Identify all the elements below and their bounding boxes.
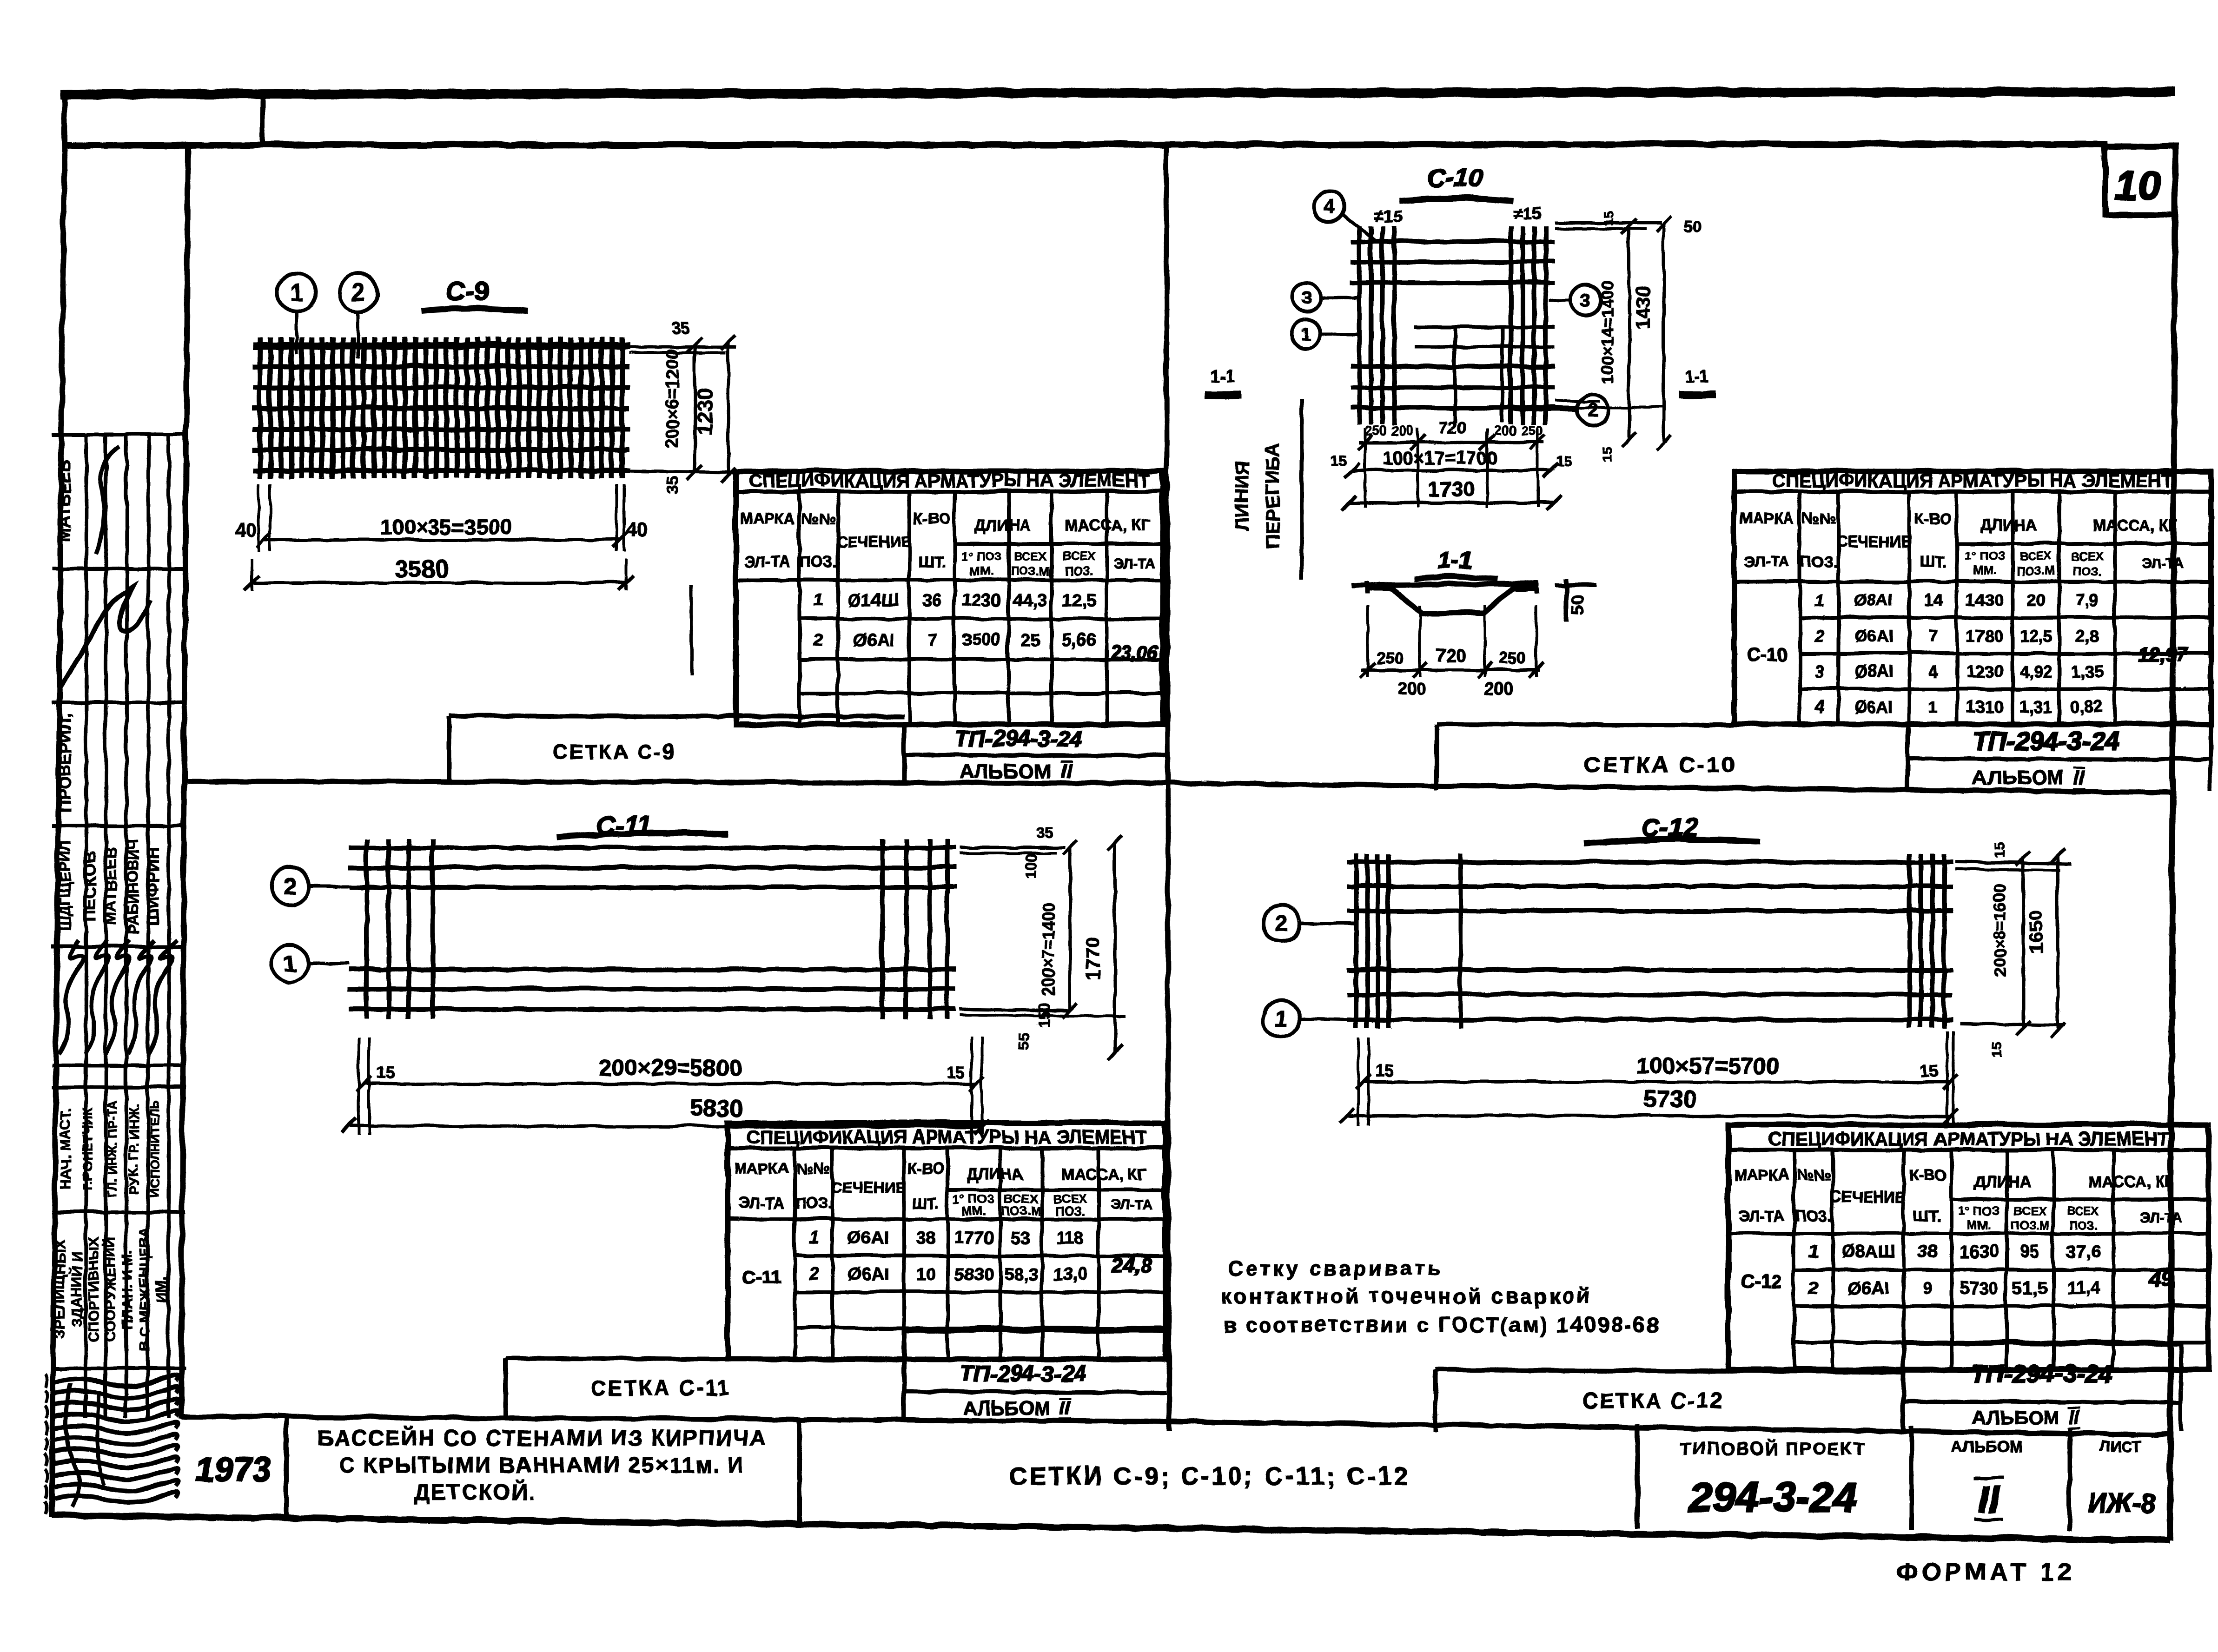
- mesh C-10 grid: [1350, 225, 1554, 424]
- mesh C-12 grid: [1346, 853, 1952, 1027]
- callout circle 1 (C-12): [1262, 999, 1355, 1037]
- svg-text:С-9: С-9: [444, 275, 488, 305]
- svg-text:200×6=1200: 200×6=1200: [662, 348, 682, 447]
- svg-text:9: 9: [1922, 1278, 1932, 1297]
- svg-text:МАТВЕЕВ: МАТВЕЕВ: [102, 847, 119, 924]
- svg-text:1230: 1230: [1965, 661, 2002, 681]
- C-11 dimension 5830: [348, 1125, 981, 1126]
- svg-text:Ø6АI: Ø6АI: [847, 1264, 888, 1283]
- svg-text:Ø8АI: Ø8АI: [1854, 590, 1893, 609]
- svg-text:55: 55: [1014, 1031, 1032, 1049]
- svg-text:ЭЛ-ТА: ЭЛ-ТА: [738, 1194, 783, 1211]
- callout circle 1 (C-9): [277, 273, 315, 311]
- C-11 vertical dimension 1770: [1113, 842, 1116, 1051]
- svg-text:ВСЕХ: ВСЕХ: [2019, 548, 2052, 562]
- svg-text:10: 10: [915, 1264, 934, 1283]
- svg-text:ТП-294-3-24: ТП-294-3-24: [960, 1361, 1086, 1386]
- svg-text:4: 4: [1813, 697, 1823, 716]
- svg-text:СЕТКА С-9: СЕТКА С-9: [552, 740, 675, 762]
- section mark 1-1 left: [1204, 390, 1240, 398]
- svg-text:1-1: 1-1: [1210, 366, 1234, 385]
- svg-text:С-12: С-12: [1741, 1270, 1781, 1291]
- svg-text:11,4: 11,4: [2066, 1278, 2099, 1297]
- svg-text:ПОЗ.: ПОЗ.: [795, 1194, 831, 1211]
- svg-text:II: II: [2073, 766, 2085, 788]
- svg-text:5730: 5730: [1959, 1278, 1998, 1297]
- svg-text:ИМ.: ИМ.: [152, 1275, 169, 1302]
- svg-text:СЕЧЕНИЕ: СЕЧЕНИЕ: [830, 1178, 905, 1195]
- svg-text:1430: 1430: [1965, 590, 2002, 609]
- svg-text:1,35: 1,35: [2070, 661, 2102, 681]
- svg-text:1770: 1770: [1081, 936, 1103, 979]
- svg-text:1: 1: [1274, 1005, 1287, 1031]
- svg-text:К-ВО: К-ВО: [907, 1159, 944, 1176]
- svg-text:СПЕЦИФИКАЦИЯ АРМАТУРЫ НА ЭЛ: СПЕЦИФИКАЦИЯ АРМАТУРЫ НА ЭЛЕМЕНТ: [1771, 470, 2172, 490]
- svg-text:2: 2: [1813, 626, 1823, 645]
- svg-text:II: II: [2068, 1406, 2079, 1427]
- project cell TP-294-3-24 (C-11): [901, 1329, 906, 1419]
- title bar C-11: [504, 1357, 903, 1359]
- svg-text:СПЕЦИФИКАЦИЯ АРМАТУРЫ НА ЭЛ: СПЕЦИФИКАЦИЯ АРМАТУРЫ НА ЭЛЕМЕНТ: [748, 470, 1149, 490]
- svg-text:ПОЗ.: ПОЗ.: [800, 552, 836, 569]
- bottom edge of C-12 title bar: [1165, 1421, 2170, 1434]
- svg-text:4: 4: [1323, 195, 1334, 217]
- stamp band big signature: [59, 586, 151, 688]
- svg-text:СПЕЦИФИКАЦИЯ АРМАТУРЫ НА ЭЛ: СПЕЦИФИКАЦИЯ АРМАТУРЫ НА ЭЛЕМЕНТ: [1768, 1128, 2168, 1149]
- svg-text:К-ВО: К-ВО: [913, 509, 950, 526]
- svg-text:14: 14: [1923, 590, 1941, 609]
- svg-text:ПЕСКОВ: ПЕСКОВ: [80, 850, 99, 921]
- C-12 vertical dimension 200x8=1600: [2021, 858, 2024, 1027]
- svg-text:2: 2: [283, 872, 296, 899]
- project cell TP-294-3-24 (C-9): [901, 724, 906, 782]
- svg-text:0,82: 0,82: [2070, 697, 2102, 716]
- svg-text:38: 38: [1917, 1242, 1936, 1261]
- svg-text:37,6: 37,6: [2066, 1242, 2100, 1261]
- callout circle 2 (C-9): [338, 273, 377, 311]
- project cell TP-294-3-24 (C-12): [1900, 1341, 1905, 1432]
- svg-text:53: 53: [1011, 1228, 1030, 1247]
- svg-text:3580: 3580: [394, 555, 448, 582]
- svg-text:АЛЬБОМ: АЛЬБОМ: [958, 759, 1050, 782]
- svg-text:5830: 5830: [953, 1264, 993, 1283]
- svg-text:5,66: 5,66: [1061, 630, 1096, 649]
- horizontal divider right half: [1165, 782, 2170, 792]
- svg-text:15: 15: [1330, 453, 1345, 468]
- svg-text:15: 15: [1555, 453, 1570, 468]
- svg-text:ЗРЕЛИЩНЫХ: ЗРЕЛИЩНЫХ: [51, 1240, 67, 1337]
- binding connector line: [259, 95, 265, 145]
- svg-text:ЗДАНИЙ И: ЗДАНИЙ И: [67, 1251, 84, 1326]
- svg-text:Г.РОНЕТЧИК: Г.РОНЕТЧИК: [79, 1106, 94, 1190]
- svg-text:Ø6АI: Ø6АI: [847, 1228, 888, 1247]
- svg-text:ДЛИНА: ДЛИНА: [966, 1165, 1023, 1183]
- svg-text:2: 2: [351, 278, 364, 305]
- svg-text:С-10: С-10: [1746, 644, 1787, 664]
- svg-text:С-10: С-10: [1426, 162, 1482, 192]
- svg-text:40: 40: [234, 518, 256, 540]
- svg-text:АЛЬБОМ: АЛЬБОМ: [1971, 1406, 2059, 1427]
- section 1-1 thickness mark: [1563, 578, 1568, 621]
- svg-text:МАССА, КГ: МАССА, КГ: [2088, 1172, 2173, 1190]
- svg-text:ПОЗ.М: ПОЗ.М: [2015, 563, 2054, 577]
- svg-text:контактной точечной сваркой: контактной точечной сваркой: [1220, 1283, 1592, 1307]
- svg-text:15: 15: [946, 1062, 965, 1081]
- svg-text:ТП-294-3-24: ТП-294-3-24: [1972, 726, 2119, 755]
- svg-text:ММ.: ММ.: [1972, 563, 1996, 577]
- svg-text:49: 49: [2148, 1266, 2172, 1290]
- C-12 dimension 5730: [1346, 1115, 1949, 1116]
- svg-text:ДЛИНА: ДЛИНА: [1973, 1172, 2030, 1190]
- svg-text:СЕЧЕНИЕ: СЕЧЕНИЕ: [1836, 532, 1911, 549]
- svg-text:ПЕРЕГИБА: ПЕРЕГИБА: [1261, 442, 1283, 548]
- spec table C-12: [1728, 1124, 2208, 1369]
- svg-text:МАССА, КГ: МАССА, КГ: [2092, 516, 2177, 534]
- svg-text:ВСЕХ: ВСЕХ: [2013, 1203, 2046, 1217]
- svg-text:ЭЛ-ТА: ЭЛ-ТА: [744, 552, 789, 569]
- stamp column divider: [180, 145, 187, 1418]
- left outer border: [51, 91, 64, 1516]
- C-12 right dimension extensions: [1954, 861, 2070, 863]
- C-9 right dimension extensions: [629, 345, 736, 348]
- svg-text:II: II: [1060, 759, 1072, 782]
- svg-text:Ø14Ш: Ø14Ш: [847, 590, 899, 609]
- svg-text:250: 250: [1364, 423, 1386, 438]
- svg-text:10: 10: [2114, 162, 2160, 208]
- svg-text:15: 15: [1988, 1041, 2004, 1056]
- svg-text:СЕЧЕНИЕ: СЕЧЕНИЕ: [1830, 1188, 1905, 1205]
- section 1-1 bent mesh profile: [1351, 583, 1539, 584]
- svg-text:38: 38: [915, 1228, 934, 1247]
- svg-text:ИЖ-8: ИЖ-8: [2086, 1487, 2155, 1518]
- svg-text:МАССА, КГ: МАССА, КГ: [1064, 516, 1149, 534]
- svg-text:Сетку сваривать: Сетку сваривать: [1227, 1256, 1442, 1279]
- svg-text:25: 25: [1020, 630, 1039, 649]
- svg-text:250: 250: [1520, 423, 1543, 438]
- svg-text:2: 2: [813, 630, 823, 649]
- svg-text:12,5: 12,5: [2019, 626, 2051, 645]
- svg-text:1973: 1973: [194, 1449, 271, 1488]
- svg-text:1-1: 1-1: [1684, 366, 1708, 385]
- svg-text:II: II: [1059, 1396, 1071, 1418]
- C-10 top right extension lines: [1554, 221, 1661, 224]
- title bar C-9: [449, 715, 903, 716]
- C-9 vertical dimension 1230: [726, 342, 729, 474]
- svg-text:СЕТКИ С-9; С-10; С-11; С-: СЕТКИ С-9; С-10; С-11; С-12: [1008, 1461, 1410, 1489]
- bottom block cell borders: [283, 1416, 288, 1516]
- svg-text:100×35=3500: 100×35=3500: [379, 514, 511, 538]
- svg-text:ПОЗ.: ПОЗ.: [1064, 563, 1092, 577]
- svg-text:1° ПОЗ: 1° ПОЗ: [960, 548, 1001, 562]
- svg-text:ПОЗ.М: ПОЗ.М: [1001, 1203, 1040, 1217]
- svg-text:15: 15: [1600, 210, 1615, 225]
- svg-text:44,3: 44,3: [1012, 590, 1046, 609]
- svg-text:ВСЕХ: ВСЕХ: [1062, 548, 1095, 562]
- svg-text:ЭЛ-ТА: ЭЛ-ТА: [2141, 555, 2183, 570]
- svg-text:7,9: 7,9: [2074, 590, 2098, 609]
- svg-text:№№: №№: [796, 1159, 830, 1176]
- svg-text:Ø8АШ: Ø8АШ: [1841, 1242, 1894, 1261]
- svg-text:7: 7: [1927, 626, 1937, 645]
- svg-text:12,97: 12,97: [2138, 642, 2187, 664]
- svg-text:294-3-24: 294-3-24: [1688, 1474, 1856, 1520]
- svg-text:ММ.: ММ.: [1966, 1217, 1990, 1231]
- svg-text:3: 3: [1814, 661, 1823, 681]
- svg-text:36: 36: [921, 590, 941, 609]
- right outer border: [2169, 145, 2174, 1540]
- inner frame top line: [64, 143, 2108, 145]
- mesh C-11 grid: [348, 838, 956, 1018]
- svg-text:51,5: 51,5: [2013, 1278, 2047, 1297]
- spec table C-9: [735, 470, 1162, 724]
- svg-text:35: 35: [1035, 824, 1053, 841]
- svg-text:720: 720: [1435, 645, 1466, 665]
- svg-text:Ø8АI: Ø8АI: [1854, 661, 1893, 681]
- svg-text:15: 15: [1919, 1061, 1938, 1080]
- svg-text:15: 15: [375, 1062, 394, 1081]
- svg-text:100: 100: [1022, 853, 1039, 878]
- horizontal divider left half: [187, 780, 1165, 782]
- svg-text:720: 720: [1438, 418, 1465, 436]
- svg-text:СПЕЦИФИКАЦИЯ АРМАТУРЫ НА ЭЛ: СПЕЦИФИКАЦИЯ АРМАТУРЫ НА ЭЛЕМЕНТ: [746, 1126, 1146, 1147]
- svg-text:Ø6АI: Ø6АI: [1854, 697, 1893, 716]
- C-11 right dimension extensions: [959, 846, 1065, 849]
- C-10 vertical dimension lines: [1627, 225, 1630, 439]
- svg-text:РУК. ГР. ИНЖ.: РУК. ГР. ИНЖ.: [126, 1103, 141, 1193]
- svg-text:АЛЬБОМ: АЛЬБОМ: [1972, 766, 2063, 788]
- svg-text:МАРКА: МАРКА: [733, 1159, 788, 1176]
- svg-text:50: 50: [1568, 595, 1588, 614]
- svg-text:№№: №№: [1796, 1165, 1830, 1183]
- svg-text:12,5: 12,5: [1061, 590, 1096, 609]
- svg-text:ПОЗ.: ПОЗ.: [1055, 1203, 1084, 1217]
- svg-text:СЕЧЕНИЕ: СЕЧЕНИЕ: [836, 532, 911, 549]
- svg-text:1230: 1230: [692, 387, 716, 435]
- C-12 bottom dimension extensions: [1356, 1037, 1359, 1125]
- sheet outer top thick border: [60, 91, 2174, 93]
- svg-text:1780: 1780: [1965, 626, 2002, 645]
- svg-text:13,0: 13,0: [1053, 1264, 1087, 1283]
- svg-text:ВСЕХ: ВСЕХ: [1013, 548, 1046, 562]
- svg-text:АЛЬБОМ: АЛЬБОМ: [962, 1396, 1050, 1418]
- spec table C-10: [1733, 470, 2210, 723]
- svg-text:100×57=5700: 100×57=5700: [1635, 1052, 1779, 1078]
- svg-text:ШИФРИН: ШИФРИН: [143, 846, 162, 925]
- svg-text:ДЕТСКОЙ.: ДЕТСКОЙ.: [413, 1479, 536, 1503]
- svg-text:5830: 5830: [689, 1094, 743, 1121]
- svg-text:МАРКА: МАРКА: [740, 509, 794, 526]
- svg-text:200: 200: [1397, 678, 1425, 697]
- svg-text:23,06: 23,06: [1110, 641, 1158, 662]
- svg-text:ММ.: ММ.: [969, 563, 993, 577]
- callout circle 3 left (C-10): [1291, 282, 1360, 311]
- svg-text:ШДГЩЕРИЛ: ШДГЩЕРИЛ: [56, 840, 73, 931]
- svg-text:1310: 1310: [1965, 697, 2002, 716]
- svg-text:НАЧ. МАСТ.: НАЧ. МАСТ.: [57, 1108, 73, 1189]
- svg-text:МАРКА: МАРКА: [1739, 509, 1793, 526]
- svg-text:ШТ.: ШТ.: [1913, 1206, 1940, 1223]
- svg-text:150: 150: [1035, 1002, 1052, 1026]
- svg-text:7: 7: [927, 630, 936, 649]
- spec table C-11: [727, 1122, 1165, 1358]
- callout circle 3 right (C-10): [1548, 284, 1600, 315]
- C-9 vertical dimension 200x6=1200: [693, 344, 696, 472]
- svg-text:ПЛАН. И М.: ПЛАН. И М.: [118, 1249, 134, 1328]
- svg-text:4: 4: [1927, 661, 1937, 681]
- svg-text:1° ПОЗ: 1° ПОЗ: [1958, 1203, 1999, 1217]
- svg-text:1: 1: [289, 278, 302, 305]
- stamp column grid horizontals: [51, 432, 185, 436]
- svg-text:ШТ.: ШТ.: [1919, 552, 1946, 569]
- svg-text:СЕТКА С-10: СЕТКА С-10: [1583, 752, 1735, 777]
- svg-text:200: 200: [1494, 423, 1516, 438]
- svg-text:Ø6АI: Ø6АI: [1854, 626, 1893, 645]
- svg-text:ИСПОЛНИТЕЛЬ: ИСПОЛНИТЕЛЬ: [147, 1099, 161, 1196]
- svg-text:ПОЗ.: ПОЗ.: [2072, 563, 2100, 577]
- svg-text:1: 1: [1814, 590, 1823, 609]
- C-9 dimension line 3580: [251, 581, 625, 584]
- svg-text:№№: №№: [801, 509, 835, 526]
- C-11 bottom dimension extensions: [357, 1037, 359, 1134]
- callout circle 4 (C-10): [1313, 191, 1344, 221]
- svg-text:58,3: 58,3: [1003, 1264, 1038, 1283]
- C-9 stray fold line: [689, 585, 693, 674]
- svg-text:20: 20: [2026, 590, 2044, 609]
- svg-text:ПОЗ.: ПОЗ.: [1794, 1206, 1831, 1223]
- svg-text:1-1: 1-1: [1437, 547, 1471, 574]
- svg-text:ШТ.: ШТ.: [918, 552, 945, 569]
- C-11 dimension 200x29=5800: [363, 1082, 976, 1085]
- svg-text:≠15: ≠15: [1374, 206, 1402, 225]
- svg-text:200×7=1400: 200×7=1400: [1038, 901, 1057, 995]
- title bar C-12: [1435, 1369, 1903, 1371]
- svg-text:2,8: 2,8: [2074, 626, 2098, 645]
- svg-text:СООРУЖЕНИЙ: СООРУЖЕНИЙ: [101, 1236, 118, 1341]
- svg-text:≠15: ≠15: [1512, 203, 1540, 222]
- svg-text:1: 1: [813, 590, 823, 609]
- C-9 bottom dimension extension lines: [257, 483, 259, 551]
- C-12 dimension 100x57=5700: [1363, 1080, 1949, 1083]
- svg-text:ЛИСТ: ЛИСТ: [2099, 1437, 2142, 1455]
- svg-text:40: 40: [625, 518, 647, 540]
- svg-text:Ø6АI: Ø6АI: [853, 630, 894, 649]
- svg-text:1630: 1630: [1959, 1242, 1998, 1261]
- svg-text:250: 250: [1498, 648, 1525, 667]
- svg-text:100×17=1700: 100×17=1700: [1382, 447, 1496, 468]
- svg-text:1: 1: [1927, 697, 1937, 716]
- C-10 bottom dimension rows: [1363, 428, 1365, 507]
- svg-text:1,31: 1,31: [2019, 697, 2051, 716]
- svg-text:РАБИНОВИЧ: РАБИНОВИЧ: [124, 838, 141, 933]
- svg-text:В.С.МЕЖЕНЦЕВА: В.С.МЕЖЕНЦЕВА: [136, 1227, 152, 1350]
- svg-text:МАТВЕЕВ: МАТВЕЕВ: [54, 459, 73, 541]
- sheet number box: [2105, 145, 2174, 214]
- svg-text:250: 250: [1376, 648, 1403, 667]
- svg-text:БАССЕЙН СО СТЕНАМИ ИЗ КИРП: БАССЕЙН СО СТЕНАМИ ИЗ КИРПИЧА: [317, 1425, 766, 1449]
- svg-text:МАССА, КГ: МАССА, КГ: [1060, 1165, 1146, 1183]
- svg-text:1: 1: [1300, 324, 1310, 344]
- callout circle 1 (C-10): [1291, 319, 1360, 348]
- svg-text:5730: 5730: [1642, 1085, 1696, 1112]
- svg-text:ЭЛ-ТА: ЭЛ-ТА: [1110, 1196, 1152, 1212]
- stamp signatures row scribbles: [59, 939, 82, 1053]
- svg-text:МАРКА: МАРКА: [1733, 1165, 1788, 1183]
- svg-text:ПОЗ.: ПОЗ.: [1800, 552, 1837, 569]
- svg-text:1650: 1650: [2024, 909, 2046, 952]
- svg-text:ГЛ. ИНЖ. ПР-ТА: ГЛ. ИНЖ. ПР-ТА: [105, 1100, 119, 1196]
- bottom edge of C-11 title bar: [180, 1416, 1165, 1421]
- svg-text:ПРОВЕРИЛ,: ПРОВЕРИЛ,: [54, 713, 73, 812]
- scan noise left margin: [44, 1374, 46, 1387]
- svg-text:1: 1: [1808, 1242, 1818, 1261]
- svg-text:С КРЫТЫМИ ВАННАМИ 25×11м.: С КРЫТЫМИ ВАННАМИ 25×11м. И: [339, 1452, 744, 1476]
- svg-text:ПОЗ.: ПОЗ.: [2068, 1217, 2097, 1231]
- svg-text:ПОЗ.М: ПОЗ.М: [2010, 1217, 2049, 1231]
- svg-text:24,8: 24,8: [1111, 1253, 1151, 1276]
- svg-text:СПОРТИВНЫХ: СПОРТИВНЫХ: [85, 1236, 101, 1341]
- title bar C-10: [1433, 723, 1438, 789]
- svg-text:2: 2: [1808, 1278, 1818, 1297]
- svg-text:С-11: С-11: [741, 1267, 781, 1287]
- svg-text:2: 2: [1274, 910, 1287, 936]
- svg-text:ЭЛ-ТА: ЭЛ-ТА: [2139, 1209, 2181, 1224]
- stamp bottom signature scribble block: [54, 1374, 177, 1385]
- svg-text:АЛЬБОМ: АЛЬБОМ: [1951, 1437, 2021, 1455]
- svg-text:ММ.: ММ.: [961, 1203, 985, 1217]
- svg-text:35: 35: [671, 319, 689, 337]
- svg-text:95: 95: [2019, 1242, 2039, 1261]
- C-11 vertical dimension 200x7=1400: [1068, 847, 1071, 1010]
- svg-text:1: 1: [283, 950, 296, 976]
- callout circle 2 (C-11): [271, 867, 348, 904]
- svg-text:ВСЕХ: ВСЕХ: [2066, 1203, 2099, 1217]
- svg-text:ПОЗ.М: ПОЗ.М: [1010, 563, 1049, 577]
- svg-text:II: II: [1977, 1478, 2000, 1520]
- svg-text:ТП-294-3-24: ТП-294-3-24: [955, 726, 1081, 751]
- svg-text:50: 50: [1683, 217, 1701, 235]
- callout circle 2 (C-12): [1262, 904, 1355, 941]
- svg-text:200×29=5800: 200×29=5800: [598, 1054, 742, 1080]
- svg-text:ЛИНИЯ: ЛИНИЯ: [1230, 460, 1252, 530]
- C-9 dimension line 100x35=3500: [263, 538, 619, 541]
- svg-text:118: 118: [1055, 1228, 1084, 1247]
- svg-text:35: 35: [664, 476, 682, 493]
- section 1-1 dimensions: [1365, 604, 1368, 676]
- svg-text:15: 15: [1375, 1061, 1393, 1080]
- svg-text:№№: №№: [1801, 509, 1836, 526]
- svg-text:1730: 1730: [1427, 476, 1474, 500]
- svg-text:1° ПОЗ: 1° ПОЗ: [1964, 548, 2004, 562]
- project cell TP-294-3-24 (C-10): [1905, 723, 1909, 790]
- svg-text:200×8=1600: 200×8=1600: [1990, 883, 2009, 977]
- svg-text:К-ВО: К-ВО: [1908, 1165, 1946, 1183]
- svg-text:1430: 1430: [1631, 285, 1653, 328]
- svg-text:3: 3: [1579, 289, 1590, 310]
- svg-text:ШТ.: ШТ.: [911, 1194, 939, 1211]
- section mark 1-1 right: [1678, 390, 1715, 398]
- svg-text:ТП-294-3-24: ТП-294-3-24: [1970, 1359, 2112, 1387]
- svg-text:СЕТКА С-11: СЕТКА С-11: [589, 1375, 730, 1399]
- svg-text:1770: 1770: [953, 1228, 993, 1247]
- svg-text:ТИПОВОЙ ПРОЕКТ: ТИПОВОЙ ПРОЕКТ: [1680, 1437, 1865, 1458]
- svg-text:СЕТКА С-12: СЕТКА С-12: [1582, 1388, 1724, 1412]
- svg-text:1: 1: [808, 1228, 818, 1247]
- svg-text:1230: 1230: [961, 590, 1001, 609]
- vertical divider between halves: [1165, 145, 1168, 1429]
- svg-text:200: 200: [1484, 678, 1512, 697]
- stamp column grid verticals: [85, 434, 86, 1417]
- C-12 vertical dimension 1650: [2056, 855, 2059, 1030]
